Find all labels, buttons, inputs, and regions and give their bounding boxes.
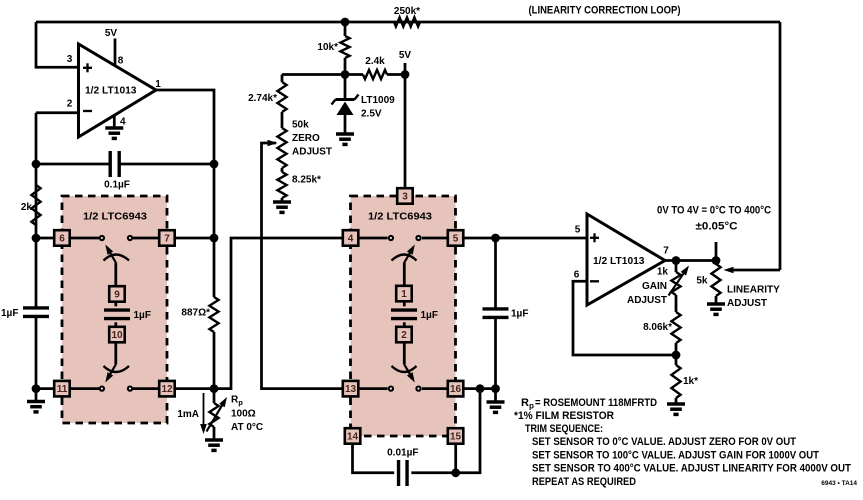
wire left feedback drop to +input [36, 22, 79, 67]
resistor 10k* [340, 22, 349, 75]
wire 8.06k-node [675, 343, 678, 355]
label 1uF flying box2 [421, 310, 438, 321]
arrow Rp variable [207, 397, 228, 432]
svg-text:(LINEARITY CORRECTION LOOP): (LINEARITY CORRECTION LOOP) [529, 5, 681, 17]
switch wire contact-pin12 [133, 387, 159, 390]
svg-text:ADJUST: ADJUST [727, 298, 767, 309]
label 50k [292, 120, 309, 131]
node dot 10k/2.4k [341, 70, 350, 79]
resistor R 250k* [394, 17, 420, 26]
pin 5 label U1b [575, 225, 581, 236]
wire 1k top [675, 261, 678, 273]
switch wire pin6-contact [70, 237, 99, 240]
zener LT1009 [332, 95, 359, 135]
svg-text:1/2 LTC6943: 1/2 LTC6943 [368, 211, 432, 223]
switch contact circle b2 bottom-right [416, 387, 420, 391]
wire pin14 to cap [353, 444, 395, 473]
wire pin6 to rail [36, 237, 55, 240]
pin square 2 [396, 327, 412, 343]
wire -input [36, 111, 79, 114]
label 1uF right [511, 309, 528, 320]
svg-text:8.06k*: 8.06k* [643, 322, 672, 333]
wire U1a output [156, 90, 214, 389]
wire pin5 to op-amp [463, 237, 587, 240]
capacitor 1uF right [483, 309, 509, 318]
label 8.25k* [292, 175, 321, 186]
pin 4 label [120, 117, 126, 128]
resistor 2.74k* [277, 82, 286, 112]
svg-text:R: R [521, 397, 529, 409]
wire 1uF right bottom [494, 318, 497, 389]
svg-text:1µF: 1µF [134, 310, 151, 321]
svg-text:5: 5 [575, 225, 581, 236]
node dot left/pin11 [32, 384, 41, 393]
svg-text:10k*: 10k* [317, 42, 338, 53]
wire node-1k* [675, 355, 678, 365]
svg-text:4: 4 [120, 117, 126, 128]
svg-text:1µF: 1µF [511, 309, 528, 320]
switch contact circle top-left B [128, 236, 132, 240]
pin 7 label U1b [663, 246, 669, 257]
pin square 5 [448, 230, 464, 246]
label (LINEARITY CORRECTION LOOP) [529, 5, 681, 17]
label 5V op-amp supply [105, 28, 118, 39]
wire 5V stub [404, 63, 407, 75]
switch arc top box2 [392, 255, 417, 261]
pin square 9 [109, 286, 125, 302]
switch contact circle b2 bottom-left [389, 387, 393, 391]
note trim sequence [525, 423, 603, 435]
wire 1k-8.06k [675, 295, 678, 312]
label output accuracy [696, 221, 738, 233]
svg-text:SET SENSOR TO 100°C VALUE. ADJ: SET SENSOR TO 100°C VALUE. ADJUST GAIN F… [532, 449, 819, 461]
op-amp U1b 1/2 LT1013 [587, 214, 665, 305]
svg-text:REPEAT AS REQUIRED: REPEAT AS REQUIRED [532, 476, 636, 488]
wire Rp top [213, 389, 216, 403]
wire 5k-gnd [715, 296, 718, 304]
svg-text:1/2 LT1013: 1/2 LT1013 [593, 256, 645, 267]
label 2.5V [361, 109, 382, 120]
switch wire pin11-contact [70, 387, 99, 390]
sensor Rp resistor [209, 403, 218, 427]
svg-text:1: 1 [401, 289, 407, 300]
note Rp rosemount [521, 397, 657, 411]
node dot output/pin7 [210, 234, 219, 243]
pin 8 5V stub [114, 39, 117, 66]
label 2.74k* [248, 93, 277, 104]
label 250k* [394, 6, 420, 17]
wire left rail [35, 113, 38, 402]
wire 8.25k-gnd [281, 198, 284, 202]
svg-text:1k*: 1k* [683, 376, 698, 387]
potentiometer 1k GAIN ADJUST [671, 272, 680, 295]
capacitor 0.1uF [110, 151, 119, 177]
node dot feedback [672, 351, 681, 360]
svg-text:2: 2 [401, 330, 407, 341]
svg-text:6: 6 [574, 270, 580, 281]
ground 5k [707, 304, 725, 314]
svg-text:6: 6 [59, 234, 65, 245]
svg-text:6943 • TA14: 6943 • TA14 [821, 480, 857, 487]
zener LT1009 wire top [344, 75, 347, 99]
label LINEARITY [727, 285, 780, 296]
arrow 1k wiper [669, 266, 690, 296]
label 1k gain [657, 267, 669, 278]
svg-text:1/2 LTC6943: 1/2 LTC6943 [83, 211, 147, 223]
switch contact circle bottom-left B [128, 387, 132, 391]
ground Rp [205, 440, 223, 450]
ground pin16 net [487, 389, 505, 413]
svg-text:50k: 50k [292, 120, 309, 131]
ground zero chain [273, 202, 291, 212]
svg-text:SET SENSOR TO 400°C VALUE. AD: SET SENSOR TO 400°C VALUE. ADJUST LINEAR… [532, 463, 851, 475]
svg-text:9: 9 [114, 290, 120, 301]
svg-text:SET SENSOR TO 0°C VALUE. ADJUS: SET SENSOR TO 0°C VALUE. ADJUST ZERO FOR… [532, 436, 796, 448]
wire 5k top [715, 261, 718, 265]
potentiometer 5k LINEARITY ADJUST [711, 264, 720, 296]
switch arm bottom box1 [105, 343, 116, 383]
svg-text:1/2 LT1013: 1/2 LT1013 [85, 85, 137, 96]
svg-text:*1% FILM RESISTOR: *1% FILM RESISTOR [514, 410, 614, 422]
node dot pin12 junction [210, 384, 219, 393]
label ZERO [292, 133, 320, 144]
node dot top/10k [341, 18, 350, 27]
svg-text:12: 12 [161, 384, 173, 395]
switch wire contact-pin5 [422, 237, 448, 240]
label 100ohm [231, 409, 256, 420]
label Rp [231, 395, 243, 408]
resistor 8.06k* [671, 312, 680, 343]
svg-text:887Ω*: 887Ω* [181, 308, 210, 319]
label 887ohm* [181, 308, 210, 319]
resistor 8.25k* [277, 172, 286, 198]
wire top feedback loop (250k to +input and down right side) [36, 22, 780, 270]
note set 400C [532, 463, 851, 475]
svg-text:13: 13 [345, 384, 357, 395]
label ADJUST gain [627, 295, 667, 306]
svg-text:0V TO 4V = 0°C TO 400°C: 0V TO 4V = 0°C TO 400°C [657, 205, 771, 217]
switch contact circle b2 top-right [416, 236, 420, 240]
pin square 1 [396, 286, 412, 302]
label 1uF left [1, 308, 18, 319]
switch arm top box2 [404, 245, 415, 286]
resistor 2k [31, 185, 40, 225]
wire zero wiper to pin13 [262, 143, 343, 389]
pin square 4 [343, 230, 359, 246]
svg-text:±0.05°C: ±0.05°C [696, 221, 738, 233]
svg-text:2k: 2k [21, 202, 33, 213]
pin 4 ground stub [113, 116, 116, 128]
switch wire contact-pin16 [422, 387, 448, 390]
svg-text:1: 1 [155, 79, 161, 90]
label 0.1uF [104, 180, 130, 191]
svg-text:5k: 5k [696, 276, 708, 287]
op-amp U1a 1/2 LT1013 [79, 44, 157, 137]
label 5V rail [399, 50, 412, 61]
capacitor 1uF flying box2 [391, 301, 417, 326]
node dot pin16/1uF [491, 384, 500, 393]
IC U2b 1/2 LTC6943 dashed box [351, 196, 456, 436]
pin square 15 [448, 428, 464, 444]
pin square 6 [54, 230, 69, 246]
switch contact circle b2 top-left [389, 236, 393, 240]
svg-text:AT 0°C: AT 0°C [231, 422, 263, 433]
ground left rail [27, 402, 45, 412]
resistor 1k* [671, 365, 680, 398]
capacitor 1uF left [23, 308, 49, 317]
potentiometer 50k ZERO ADJUST [277, 128, 286, 168]
wire U1b output [665, 259, 716, 262]
svg-text:14: 14 [347, 432, 359, 443]
svg-text:10: 10 [111, 330, 123, 341]
svg-text:1µF: 1µF [421, 310, 438, 321]
wire pin12 node to pin4 [214, 238, 343, 389]
node dot pin16/riser [476, 384, 485, 393]
label 8.06k* [643, 322, 672, 333]
label output range [657, 205, 771, 217]
wire 0.1uF row [36, 163, 214, 166]
svg-text:100Ω: 100Ω [231, 409, 256, 420]
pin square 3 [397, 188, 413, 204]
label 1k* [683, 376, 698, 387]
node dot left/pin6 [32, 234, 41, 243]
note set 0C [532, 436, 796, 448]
svg-text:GAIN: GAIN [642, 281, 667, 292]
label AT 0C [231, 422, 263, 433]
switch wire pin4-contact [358, 237, 387, 240]
wire pin11 to rail [36, 387, 55, 390]
svg-text:7: 7 [663, 246, 669, 257]
label 10k* [317, 42, 338, 53]
switch arc top box1 [104, 255, 130, 261]
wire cap to pin16 gnd riser [411, 389, 480, 473]
wire 1uF right top [494, 238, 497, 309]
label ADJUST zero [292, 147, 332, 158]
wire 2.74k-50k [281, 112, 284, 128]
node dot pin15/0.01uF [451, 468, 460, 477]
label 2.4k [365, 56, 385, 67]
wire 1k*-gnd [675, 398, 678, 404]
svg-text:11: 11 [57, 384, 68, 395]
label 1mA [177, 409, 199, 420]
pin square 16 [448, 381, 464, 397]
switch arc bottom box2 [392, 366, 417, 372]
wire pin16 to ground node [463, 387, 496, 390]
pin 2 label [67, 99, 73, 110]
svg-text:ADJUST: ADJUST [627, 295, 667, 306]
svg-text:2.74k*: 2.74k* [248, 93, 277, 104]
node dot output/0.1uF [210, 160, 219, 169]
svg-text:2: 2 [67, 99, 73, 110]
pin square 7 [159, 230, 175, 246]
wire output stub up [715, 242, 718, 261]
svg-text:LT1009: LT1009 [361, 95, 395, 106]
svg-text:1k: 1k [657, 267, 669, 278]
svg-text:5V: 5V [399, 50, 412, 61]
switch wire contact-pin7 [133, 237, 159, 240]
label LT1009 [361, 95, 395, 106]
svg-text:5: 5 [453, 234, 459, 245]
svg-text:8.25k*: 8.25k* [292, 175, 321, 186]
switch arc bottom box1 [104, 366, 130, 372]
pin 8 label [118, 56, 124, 67]
wire Rp bottom [213, 427, 216, 440]
svg-text:1mA: 1mA [177, 409, 199, 420]
svg-text:ZERO: ZERO [292, 133, 320, 144]
svg-text:16: 16 [450, 384, 462, 395]
svg-text:TRIM SEQUENCE:: TRIM SEQUENCE: [525, 423, 603, 435]
capacitor 1uF flying box1 [104, 302, 130, 327]
arrow zero wiper head [268, 140, 278, 147]
wire 5V to pin3 [404, 75, 407, 190]
node dot pin5/1uF [491, 234, 500, 243]
wire pin15 stub [454, 444, 457, 473]
pin 6 label U1b [574, 270, 580, 281]
pin square 10 [109, 327, 125, 343]
note repeat [532, 476, 636, 488]
svg-text:0.01µF: 0.01µF [387, 448, 418, 459]
capacitor 0.01uF [399, 460, 408, 486]
pin 3 label [67, 54, 73, 65]
svg-text:15: 15 [450, 432, 462, 443]
pin square 12 [159, 381, 175, 397]
note set 100C [532, 449, 819, 461]
svg-text:3: 3 [402, 192, 408, 203]
wire pin12 to junction [175, 387, 215, 390]
pin square 14 [345, 428, 361, 444]
svg-text:2.5V: 2.5V [361, 109, 382, 120]
note figure number [821, 480, 857, 487]
pin square 11 [54, 381, 69, 397]
svg-text:LINEARITY: LINEARITY [727, 285, 780, 296]
label 1uF flying box1 [134, 310, 151, 321]
svg-text:7: 7 [164, 234, 170, 245]
wire U1b -input feedback [573, 281, 676, 355]
label 5k [696, 276, 708, 287]
note 1% film [514, 410, 614, 422]
node dot output/1k [672, 256, 681, 265]
svg-text:250k*: 250k* [394, 6, 420, 17]
node dot left/0.1uF [32, 160, 41, 169]
svg-text:1µF: 1µF [1, 308, 18, 319]
svg-text:0.1µF: 0.1µF [104, 180, 130, 191]
label 0.01uF [387, 448, 418, 459]
pin square 13 [343, 381, 359, 397]
ground 1k* [667, 404, 685, 414]
switch wire pin13-contact [358, 387, 387, 390]
node dot output/5k [712, 256, 721, 265]
IC U2a 1/2 LTC6943 dashed box [62, 196, 167, 423]
svg-text:2.4k: 2.4k [365, 56, 385, 67]
svg-text:3: 3 [67, 54, 73, 65]
node dot 5V [401, 70, 410, 79]
label 2k [21, 202, 33, 213]
pin 1 label [155, 79, 161, 90]
switch contact circle top-left A [100, 236, 104, 240]
svg-text:5V: 5V [105, 28, 118, 39]
wire zero chain top [282, 75, 345, 83]
wire pin7 to output rail [175, 237, 215, 240]
svg-text:= ROSEMOUNT 118MFRTD: = ROSEMOUNT 118MFRTD [535, 397, 657, 409]
switch arm top box1 [105, 245, 116, 286]
resistor 887ohm* [209, 297, 218, 332]
arrow 5k wiper [724, 267, 781, 274]
switch contact circle bottom-left A [100, 387, 104, 391]
arrow 1mA [200, 393, 207, 434]
resistor 2.4k [345, 70, 405, 79]
switch arm bottom box2 [404, 343, 415, 383]
wire 50k-8.25k [281, 168, 284, 172]
label GAIN [642, 281, 667, 292]
ground op-amp U1a [105, 128, 123, 138]
svg-text:8: 8 [118, 56, 124, 67]
ground LT1009 [336, 134, 354, 144]
label ADJUST linearity [727, 298, 767, 309]
svg-text:4: 4 [348, 234, 354, 245]
svg-text:ADJUST: ADJUST [292, 147, 332, 158]
